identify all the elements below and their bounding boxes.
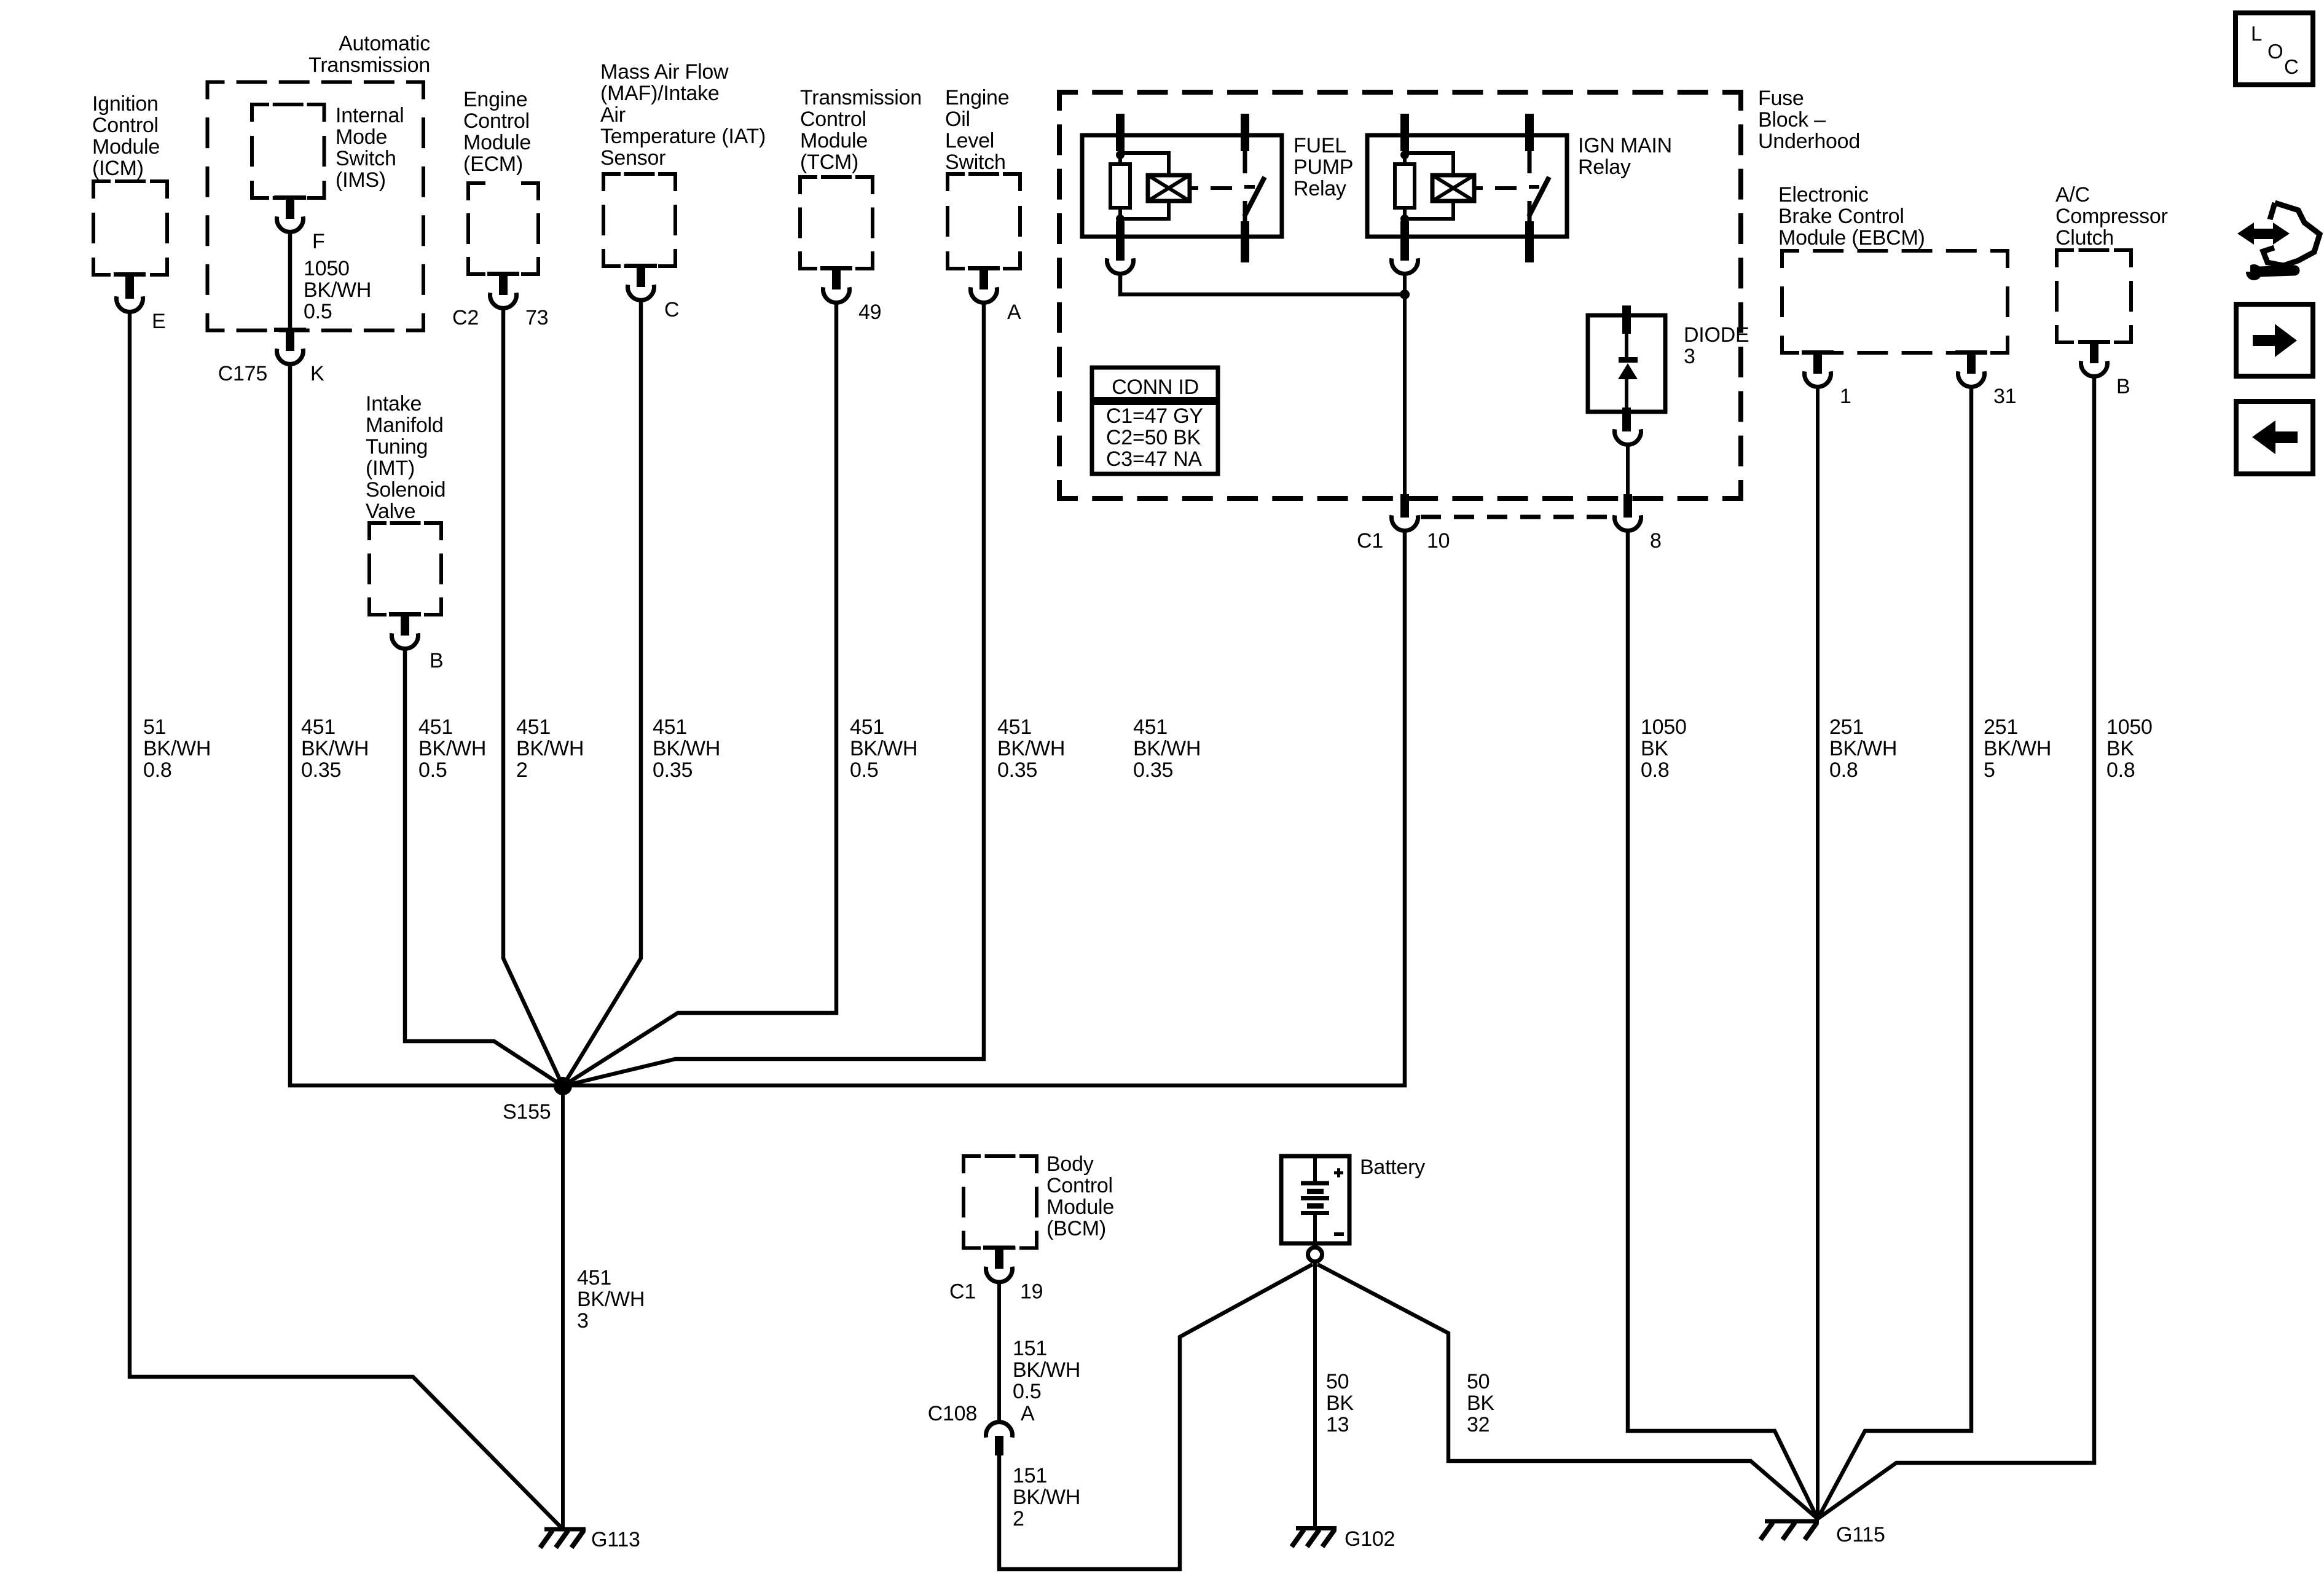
wire: ICM pin E to G113 (51 BK/WH 0.8) — [130, 312, 562, 1528]
relay coil bottom junction — [1116, 215, 1125, 223]
wire: Battery negative to ground G115 (50 BK 32) — [1317, 1264, 1818, 1519]
Fuse Block - Underhood (dashed boundary) — [1059, 87, 1860, 498]
relay lead connector (cup) — [1107, 258, 1134, 274]
svg-text:C2: C2 — [452, 306, 479, 329]
svg-text:50: 50 — [1467, 1370, 1490, 1393]
svg-text:B: B — [430, 649, 443, 672]
svg-text:(IMS): (IMS) — [336, 168, 386, 192]
relay switch bottom contact — [1528, 201, 1532, 221]
module box: Engine Oil Level Switch — [945, 86, 1020, 269]
relay coil pin stub (bottom) — [1400, 221, 1409, 261]
svg-text:G113: G113 — [591, 1528, 640, 1551]
svg-text:251: 251 — [1984, 715, 2018, 739]
svg-text:Valve: Valve — [366, 500, 415, 523]
connector pin 8 at fuse block bottom — [1615, 494, 1662, 553]
svg-text:Mode: Mode — [336, 125, 387, 149]
connector pin C of MAF/IAT sensor — [625, 264, 679, 321]
wire label 151 BK/WH 0.5 — [1013, 1337, 1080, 1403]
wire: diode to fuse block bottom connector 8 — [1626, 444, 1630, 496]
svg-text:Engine: Engine — [463, 88, 527, 111]
svg-text:32: 32 — [1467, 1413, 1490, 1436]
svg-text:0.35: 0.35 — [1133, 758, 1173, 782]
svg-text:151: 151 — [1013, 1337, 1047, 1360]
relay coil resistor — [1110, 164, 1130, 208]
connector C2 pin 73 of ECM — [452, 272, 548, 329]
svg-text:251: 251 — [1829, 715, 1864, 739]
svg-text:Internal: Internal — [336, 104, 404, 127]
svg-text:Transmission: Transmission — [308, 53, 430, 77]
svg-text:Transmission: Transmission — [800, 86, 922, 109]
wire label 451 BK/WH 0.5 — [418, 715, 486, 782]
svg-text:BK/WH: BK/WH — [1984, 737, 2051, 760]
svg-text:1050: 1050 — [304, 257, 350, 280]
svg-text:C: C — [2284, 55, 2299, 78]
svg-text:BK: BK — [1326, 1392, 1354, 1415]
relay coil pin stub (top) — [1116, 114, 1125, 151]
svg-text:(TCM): (TCM) — [800, 151, 858, 174]
module box: Intake Manifold Tuning (IMT) Solenoid Valve — [366, 392, 446, 615]
svg-text:G102: G102 — [1345, 1527, 1395, 1551]
svg-text:Automatic: Automatic — [339, 32, 430, 55]
relay coil top junction — [1116, 151, 1125, 159]
svg-text:BK/WH: BK/WH — [653, 737, 720, 760]
svg-text:BK: BK — [1641, 737, 1668, 760]
wire label 1050 BK/WH 0.5 — [304, 257, 371, 323]
connector C1 pin 10 at fuse block bottom — [1357, 494, 1450, 553]
IGN MAIN Relay — [1367, 114, 1672, 274]
svg-text:FUEL: FUEL — [1294, 134, 1346, 157]
relay coil winding box with X — [1148, 175, 1190, 201]
svg-text:Module: Module — [800, 129, 868, 152]
svg-text:(BCM): (BCM) — [1046, 1217, 1106, 1240]
svg-text:PUMP: PUMP — [1294, 156, 1353, 179]
svg-text:151: 151 — [1013, 1464, 1047, 1487]
wire label 451 BK/WH 2 — [516, 715, 584, 782]
svg-text:Body: Body — [1046, 1152, 1094, 1176]
svg-text:Module: Module — [1046, 1195, 1114, 1219]
svg-text:31: 31 — [1993, 385, 2016, 408]
svg-text:BK/WH: BK/WH — [143, 737, 211, 760]
module box: Mass Air Flow (MAF)/Intake Air Temperature (IAT) Sensor — [600, 60, 766, 266]
svg-text:Compressor: Compressor — [2055, 205, 2168, 228]
svg-text:BK/WH: BK/WH — [577, 1288, 645, 1311]
svg-text:Ignition: Ignition — [92, 92, 159, 116]
svg-text:0.35: 0.35 — [653, 758, 693, 782]
svg-text:Tuning: Tuning — [366, 435, 428, 459]
svg-text:451: 451 — [850, 715, 884, 739]
svg-text:BK/WH: BK/WH — [418, 737, 486, 760]
relay mechanical linkage (dashed) — [1474, 186, 1483, 190]
wire: ECM pin 73 to splice S155 (451 BK/WH 2) — [503, 308, 563, 1086]
connector pin B of A/C Compressor Clutch — [2078, 340, 2130, 398]
svg-text:1: 1 — [1840, 385, 1851, 408]
module box: Internal Mode Switch (IMS) inside Automatic Transmission — [252, 104, 404, 198]
Battery — [1281, 1156, 1425, 1262]
svg-text:Manifold: Manifold — [366, 414, 444, 437]
svg-text:2: 2 — [1013, 1507, 1024, 1530]
svg-text:451: 451 — [997, 715, 1032, 739]
module box: Automatic Transmission (outer dashed) — [208, 32, 431, 331]
wire: IGN MAIN relay lead down through junction to connector C1 pin 10 — [1403, 274, 1407, 496]
svg-text:C108: C108 — [928, 1402, 977, 1425]
relay switch movable contact arm — [1529, 177, 1549, 216]
svg-text:3: 3 — [1684, 345, 1695, 368]
wire label 251 BK/WH 0.8 — [1829, 715, 1897, 782]
wire: EBCM pin 31 to ground G115 (251 BK/WH 5) — [1818, 387, 1971, 1519]
svg-text:Module: Module — [463, 131, 531, 154]
svg-text:(IMT): (IMT) — [366, 457, 415, 480]
svg-text:73: 73 — [525, 306, 548, 329]
module box: Transmission Control Module (TCM) — [800, 86, 922, 269]
svg-text:S155: S155 — [503, 1100, 551, 1124]
svg-text:BK/WH: BK/WH — [516, 737, 584, 760]
relay coil (solenoid) branch — [1120, 153, 1169, 175]
svg-text:Block –: Block – — [1758, 108, 1826, 132]
svg-text:0.5: 0.5 — [850, 758, 879, 782]
svg-text:2: 2 — [516, 758, 528, 782]
wire label 451 BK/WH 0.5 — [850, 715, 917, 782]
diode body box — [1588, 315, 1665, 412]
relay switch fixed contact (top) — [1525, 114, 1534, 151]
svg-text:3: 3 — [577, 1309, 589, 1333]
wire: C175 K to splice S155 (451 BK/WH 0.35) — [290, 364, 558, 1085]
svg-text:F: F — [312, 230, 325, 253]
svg-text:Underhood: Underhood — [1758, 130, 1860, 153]
wire: IMT pin B to splice S155 (451 BK/WH 0.5) — [405, 648, 563, 1086]
wire label 1050 BK 0.8 — [2106, 715, 2153, 782]
relay name label — [1294, 134, 1353, 200]
svg-text:Module (EBCM): Module (EBCM) — [1778, 226, 1925, 250]
svg-text:1050: 1050 — [2106, 715, 2153, 739]
LOC legend box (top right) — [2236, 13, 2313, 85]
wire: splice S155 to ground G113 (451 BK/WH 3) — [561, 1086, 565, 1528]
svg-text:Control: Control — [463, 109, 530, 133]
svg-text:0.8: 0.8 — [2106, 758, 2135, 782]
svg-text:0.5: 0.5 — [304, 300, 332, 323]
splice node S155 — [503, 1077, 572, 1124]
svg-text:BK/WH: BK/WH — [304, 278, 371, 302]
wire: connector 8 to ground G115 (1050 BK 0.8) — [1628, 530, 1818, 1519]
svg-text:451: 451 — [577, 1266, 611, 1290]
svg-text:C2=50 BK: C2=50 BK — [1106, 426, 1201, 449]
module box: Electronic Brake Control Module (EBCM) — [1778, 183, 2008, 353]
svg-text:Control: Control — [800, 108, 866, 131]
svg-text:C: C — [664, 298, 679, 321]
junction node of relay ground leads — [1400, 289, 1410, 299]
wire label 451 BK/WH 0.35 — [653, 715, 720, 782]
svg-text:Air: Air — [600, 103, 626, 127]
diode bottom pin stub — [1622, 408, 1631, 431]
relay box (IGN MAIN) — [1367, 135, 1567, 237]
svg-text:Mass Air Flow: Mass Air Flow — [600, 60, 729, 84]
svg-text:BK: BK — [1467, 1392, 1494, 1415]
svg-text:Oil: Oil — [945, 108, 970, 131]
legend box: arrow right — [2236, 304, 2313, 376]
svg-text:Clutch: Clutch — [2055, 226, 2114, 250]
wire: EBCM pin 1 to ground G115 (251 BK/WH 0.8) — [1816, 387, 1820, 1519]
relay coil pin stub (top) — [1400, 114, 1409, 151]
svg-text:C1: C1 — [949, 1280, 976, 1304]
svg-text:Switch: Switch — [945, 151, 1006, 174]
svg-text:Control: Control — [92, 114, 159, 137]
inline connector C175 pin K on Automatic Transmission boundary — [218, 328, 324, 385]
svg-text:DIODE: DIODE — [1684, 323, 1749, 347]
connector pin A of Engine Oil Level Switch — [968, 266, 1021, 324]
connector pin 1 of EBCM — [1802, 350, 1851, 408]
svg-text:Fuse: Fuse — [1758, 87, 1804, 110]
svg-text:K: K — [310, 362, 324, 385]
wire label 251 BK/WH 5 — [1984, 715, 2051, 782]
svg-text:BK/WH: BK/WH — [850, 737, 917, 760]
svg-text:C1: C1 — [1357, 529, 1383, 553]
svg-text:451: 451 — [418, 715, 453, 739]
svg-text:(MAF)/Intake: (MAF)/Intake — [600, 82, 719, 105]
svg-text:451: 451 — [653, 715, 687, 739]
module box: Engine Control Module (ECM) — [463, 88, 538, 274]
module box: Ignition Control Module (ICM) — [92, 92, 167, 275]
ground G102 — [1292, 1527, 1395, 1551]
wire: BCM pin 19 to connector C108 (151 BK/WH 0.5) — [997, 1282, 1001, 1422]
wire label 151 BK/WH 2 — [1013, 1464, 1080, 1530]
svg-text:G115: G115 — [1836, 1523, 1885, 1546]
svg-text:451: 451 — [1133, 715, 1168, 739]
wire label 50 BK 13 — [1326, 1370, 1354, 1436]
svg-text:CONN ID: CONN ID — [1112, 376, 1199, 399]
wire label 451 BK/WH 0.35 — [1133, 715, 1201, 782]
vehicle orientation icon with double arrow and wrench — [2237, 203, 2320, 280]
connector row dashed line between C1-10 and 8 — [1421, 515, 1612, 519]
diode top pin stub — [1622, 305, 1631, 334]
DIODE 3 inside fuse block — [1588, 305, 1749, 444]
svg-text:49: 49 — [858, 301, 881, 324]
svg-text:(ECM): (ECM) — [463, 152, 523, 176]
svg-text:O: O — [2267, 40, 2283, 63]
wire label 451 BK/WH 0.35 — [301, 715, 369, 782]
battery - terminal sign — [1334, 1232, 1344, 1236]
relay coil winding box with X — [1432, 175, 1474, 201]
relay coil (solenoid) branch — [1405, 153, 1453, 175]
relay switch fixed contact (top) — [1241, 114, 1249, 151]
svg-text:Module: Module — [92, 135, 160, 159]
svg-text:0.5: 0.5 — [1013, 1380, 1042, 1403]
svg-text:Electronic: Electronic — [1778, 183, 1869, 207]
svg-text:(ICM): (ICM) — [92, 157, 144, 180]
connector pin E of ICM — [114, 272, 165, 333]
module box: Body Control Module (BCM) — [964, 1152, 1114, 1248]
svg-text:0.5: 0.5 — [418, 758, 447, 782]
svg-text:BK/WH: BK/WH — [301, 737, 369, 760]
svg-text:0.8: 0.8 — [1829, 758, 1858, 782]
relay switch movable contact arm — [1244, 177, 1265, 216]
svg-text:1050: 1050 — [1641, 715, 1687, 739]
wire: C1 pin 10 down to splice S155 (451 BK/WH 0.35) — [563, 530, 1405, 1085]
svg-text:Control: Control — [1046, 1174, 1113, 1197]
svg-text:0.8: 0.8 — [1641, 758, 1670, 782]
relay mechanical linkage (dashed) — [1190, 186, 1198, 190]
svg-text:IGN MAIN: IGN MAIN — [1578, 134, 1672, 157]
ground G115 — [1761, 1521, 1885, 1546]
connector pin B of IMT Solenoid Valve — [389, 612, 443, 672]
relay coil bottom junction — [1400, 215, 1409, 223]
wire label 51 BK/WH 0.8 — [143, 715, 211, 782]
wire label 451 BK/WH 3 — [577, 1266, 645, 1333]
wire: C108 to Battery negative (151 BK/WH 2) — [999, 1264, 1313, 1569]
svg-text:451: 451 — [301, 715, 336, 739]
svg-text:0.35: 0.35 — [997, 758, 1037, 782]
battery negative terminal node — [1308, 1248, 1322, 1262]
wire: A/C Compressor Clutch pin B to ground G115 (1050 BK 0.8) — [1818, 376, 2094, 1519]
svg-text:B: B — [2116, 375, 2130, 398]
svg-text:Switch: Switch — [336, 147, 396, 170]
relay name label — [1578, 134, 1672, 179]
svg-text:19: 19 — [1020, 1280, 1043, 1304]
svg-text:BK/WH: BK/WH — [1013, 1486, 1080, 1509]
svg-text:BK: BK — [2106, 737, 2134, 760]
svg-text:C175: C175 — [218, 362, 267, 385]
svg-text:0.35: 0.35 — [301, 758, 341, 782]
svg-text:0.8: 0.8 — [143, 758, 172, 782]
diode anode triangle — [1618, 363, 1638, 379]
svg-text:13: 13 — [1326, 1413, 1349, 1436]
svg-text:451: 451 — [516, 715, 551, 739]
relay lead connector (cup) — [1392, 258, 1418, 274]
svg-text:Sensor: Sensor — [600, 146, 665, 170]
svg-text:Brake Control: Brake Control — [1778, 205, 1904, 228]
legend box: arrow left — [2236, 401, 2313, 474]
svg-text:Intake: Intake — [366, 392, 422, 415]
svg-text:Relay: Relay — [1294, 177, 1346, 200]
svg-text:L: L — [2251, 22, 2262, 45]
wire label 1050 BK 0.8 — [1641, 715, 1687, 782]
wire: IMS pin F down to C175 (1050 BK/WH 0.5) — [288, 232, 292, 332]
svg-text:C1=47 GY: C1=47 GY — [1106, 404, 1203, 428]
svg-text:Engine: Engine — [945, 86, 1009, 109]
relay box (FUEL) — [1082, 135, 1282, 237]
wire: Engine Oil Level Switch pin A to splice S155 (451 BK/WH 0.35) — [563, 302, 984, 1086]
svg-text:BK/WH: BK/WH — [1133, 737, 1201, 760]
svg-text:Temperature (IAT): Temperature (IAT) — [600, 125, 766, 148]
wire: FUEL PUMP relay to junction with IGN MAIN relay wire — [1120, 274, 1403, 294]
svg-text:E: E — [152, 310, 165, 333]
ground G113 — [540, 1528, 640, 1551]
svg-text:10: 10 — [1427, 529, 1450, 553]
svg-text:Relay: Relay — [1578, 156, 1631, 179]
wire label 50 BK 32 — [1467, 1370, 1494, 1436]
svg-text:BK/WH: BK/WH — [1013, 1358, 1080, 1382]
svg-text:BK/WH: BK/WH — [1829, 737, 1897, 760]
svg-text:Solenoid: Solenoid — [366, 478, 446, 502]
svg-text:50: 50 — [1326, 1370, 1349, 1393]
svg-text:A: A — [1007, 301, 1021, 324]
relay coil pin stub (bottom) — [1116, 221, 1125, 261]
svg-text:C3=47 NA: C3=47 NA — [1106, 447, 1202, 471]
module box: A/C Compressor Clutch — [2055, 183, 2168, 342]
connector pin 49 of TCM — [820, 266, 881, 324]
wire label 451 BK/WH 0.35 — [997, 715, 1065, 782]
connector pin F of IMS — [274, 195, 325, 253]
svg-text:8: 8 — [1650, 529, 1662, 553]
connector pin 31 of EBCM — [1955, 350, 2016, 408]
CONN ID table — [1092, 368, 1218, 474]
inline connector C108 pin A (dome) — [928, 1402, 1035, 1455]
svg-text:Battery: Battery — [1360, 1156, 1425, 1179]
relay coil top junction — [1400, 151, 1409, 159]
relay switch bottom contact — [1243, 201, 1247, 221]
svg-text:Level: Level — [945, 129, 994, 152]
svg-text:BK/WH: BK/WH — [997, 737, 1065, 760]
FUEL PUMP Relay — [1082, 114, 1353, 274]
wire: MAF pin C to splice S155 (451 BK/WH 0.35) — [563, 300, 641, 1086]
battery + terminal sign — [1334, 1171, 1343, 1175]
wire: TCM pin 49 to splice S155 (451 BK/WH 0.5) — [563, 302, 836, 1086]
svg-text:51: 51 — [143, 715, 166, 739]
svg-text:5: 5 — [1984, 758, 1995, 782]
connector C1 pin 19 of BCM — [949, 1246, 1043, 1304]
svg-text:A/C: A/C — [2055, 183, 2090, 207]
wire: Battery negative to ground G102 (50 BK 13) — [1313, 1262, 1317, 1526]
relay coil resistor — [1395, 164, 1415, 208]
diode lead connector (cup) — [1615, 429, 1641, 444]
svg-text:A: A — [1021, 1402, 1035, 1425]
diode cathode bar — [1619, 357, 1638, 363]
